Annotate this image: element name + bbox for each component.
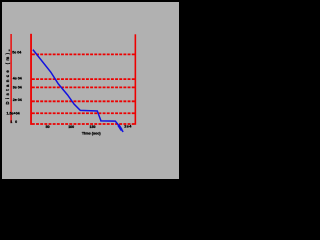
svg-text:5e 04: 5e 04 (12, 51, 21, 55)
gridline 1 (32, 53, 135, 55)
svg-text:4e 04: 4e 04 (13, 77, 22, 81)
svg-text:1 0: 1 0 (10, 120, 18, 124)
bottom axis dashed (32, 123, 135, 125)
svg-text:2e 04: 2e 04 (13, 98, 22, 102)
y-axis inner line (10, 34, 12, 123)
svg-text:100: 100 (68, 125, 74, 129)
data line end wedge (118, 125, 121, 130)
gridline 3 (32, 86, 135, 88)
data line end tail (121, 130, 123, 132)
left axis line (30, 34, 32, 125)
gridline 2 (32, 78, 135, 80)
svg-text:3e 04: 3e 04 (13, 85, 22, 89)
svg-text:Time (sec): Time (sec) (82, 131, 101, 135)
svg-text:1.5e+04: 1.5e+04 (7, 111, 20, 115)
right axis line (134, 34, 136, 125)
gridline 4 (32, 100, 135, 102)
svg-text:2e4: 2e4 (124, 124, 132, 128)
y label row 1 lead tick mark (9, 49, 10, 51)
svg-text:Distance (m): Distance (m) (5, 51, 10, 105)
data line (33, 50, 119, 126)
gridline 5 (32, 112, 135, 114)
svg-text:50: 50 (46, 125, 50, 129)
svg-text:150: 150 (90, 125, 96, 129)
